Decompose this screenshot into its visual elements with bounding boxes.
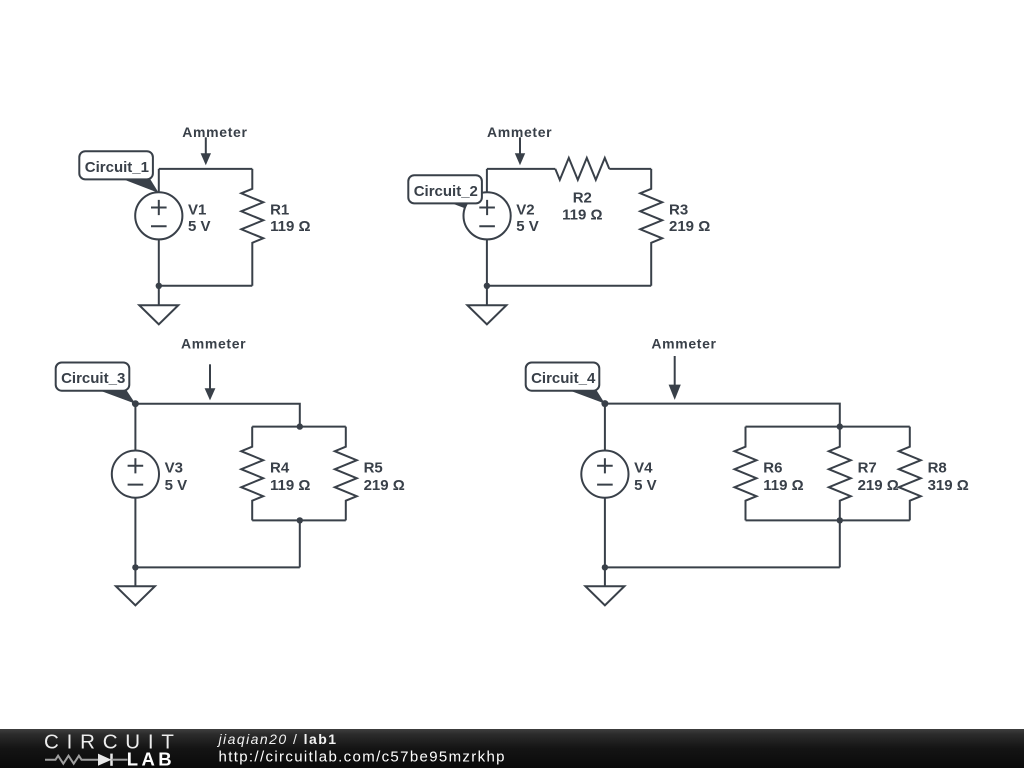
resistor R2 <box>555 158 609 180</box>
wire top rail circuit 2 right segment <box>609 168 651 170</box>
svg-text:Circuit_1: Circuit_1 <box>85 159 149 176</box>
wire top rail circuit 2 left segment <box>487 168 555 170</box>
node label Circuit_4 <box>526 363 600 391</box>
node label Circuit_2 <box>408 175 482 203</box>
wire parallel bottom rail circuit 4 <box>746 519 910 521</box>
ground circuit 3 <box>116 567 155 605</box>
node label Circuit_3 <box>56 363 130 391</box>
svg-text:R6: R6 <box>763 459 782 476</box>
resistor R6 <box>735 427 757 521</box>
V1 value label <box>188 202 211 236</box>
wire V2 top lead <box>486 169 488 192</box>
svg-text:V2: V2 <box>516 202 534 219</box>
wire bottom rail circuit 2 <box>487 285 651 287</box>
svg-text:119 Ω: 119 Ω <box>270 477 310 494</box>
wire junction to bottom circuit 4 <box>839 520 841 567</box>
ground circuit 2 <box>467 286 506 325</box>
logo resistor symbol <box>45 756 98 764</box>
wire V2 bottom lead <box>486 239 488 285</box>
svg-text:Ammeter: Ammeter <box>651 335 716 351</box>
svg-text:jiaqian20 / lab1: jiaqian20 / lab1 <box>217 731 338 747</box>
resistor R1 <box>241 169 263 286</box>
Ammeter arrow circuit 1 <box>201 137 211 165</box>
svg-text:http://circuitlab.com/c57be95m: http://circuitlab.com/c57be95mzrkhp <box>219 749 506 766</box>
wire bottom rail circuit 1 <box>159 285 253 287</box>
junction circuit 3 bottom rail <box>297 517 303 523</box>
svg-text:R1: R1 <box>270 202 289 219</box>
junction circuit 4 top rail <box>837 423 843 429</box>
svg-text:5 V: 5 V <box>516 218 539 235</box>
svg-text:Circuit_3: Circuit_3 <box>61 370 125 387</box>
R6 value label <box>763 459 803 494</box>
svg-text:219 Ω: 219 Ω <box>364 477 405 494</box>
resistor R4 <box>241 427 263 521</box>
svg-text:Circuit_4: Circuit_4 <box>531 370 596 387</box>
junction circuit 3 top rail <box>297 423 303 429</box>
wire parallel bottom rail circuit 3 <box>252 519 346 521</box>
svg-text:5 V: 5 V <box>188 218 211 235</box>
svg-text:119 Ω: 119 Ω <box>562 206 602 223</box>
wire V3 bottom lead <box>134 498 136 568</box>
wire top rail circuit 3 <box>135 404 299 427</box>
svg-text:R7: R7 <box>858 459 877 476</box>
svg-text:V1: V1 <box>188 202 206 219</box>
svg-text:219 Ω: 219 Ω <box>669 218 710 235</box>
node flag pointer Circuit_4 <box>568 390 605 404</box>
wire bottom rail circuit 4 <box>605 566 840 568</box>
junction circuit 2 ground node <box>484 283 490 289</box>
V2 value label <box>516 202 539 236</box>
svg-text:R5: R5 <box>364 459 383 476</box>
wire V4 bottom lead <box>604 498 606 568</box>
R5 value label <box>364 459 405 494</box>
svg-text:319 Ω: 319 Ω <box>928 477 969 494</box>
svg-text:5 V: 5 V <box>634 477 657 494</box>
svg-text:LAB: LAB <box>127 749 175 768</box>
svg-text:5 V: 5 V <box>165 477 188 494</box>
R3 value label <box>669 202 710 236</box>
svg-text:Circuit_2: Circuit_2 <box>414 183 478 200</box>
resistor R5 <box>335 427 357 521</box>
voltage source V4 <box>581 451 628 498</box>
ground circuit 4 <box>585 567 624 605</box>
wire V1 bottom lead <box>158 239 160 285</box>
svg-text:R4: R4 <box>270 459 290 476</box>
wire parallel top rail circuit 4 <box>746 426 910 428</box>
V3 value label <box>165 459 188 494</box>
junction circuit 1 ground node <box>156 283 162 289</box>
resistor R3 <box>640 169 662 286</box>
R1 value label <box>270 202 310 236</box>
Ammeter arrow circuit 2 <box>515 137 525 165</box>
Ammeter arrow circuit 3 <box>205 364 216 400</box>
wire top rail circuit 4 <box>605 404 840 427</box>
node flag pointer Circuit_2 <box>449 202 488 217</box>
wire top rail circuit 1 <box>159 168 253 170</box>
node dot Circuit_4 anchor <box>601 400 608 407</box>
svg-text:R8: R8 <box>928 459 947 476</box>
voltage source V3 <box>112 451 159 498</box>
svg-text:119 Ω: 119 Ω <box>763 477 803 494</box>
svg-text:Ammeter: Ammeter <box>182 124 247 140</box>
wire V3 top lead <box>134 404 136 451</box>
node dot Circuit_3 anchor <box>132 400 139 407</box>
R2 value label <box>562 189 602 223</box>
wire parallel top rail circuit 3 <box>252 426 346 428</box>
wire bottom rail circuit 3 <box>135 566 299 568</box>
svg-text:Ammeter: Ammeter <box>181 335 246 351</box>
svg-text:R3: R3 <box>669 202 688 219</box>
svg-text:119 Ω: 119 Ω <box>270 218 310 235</box>
wire V4 top lead <box>604 404 606 451</box>
junction circuit 4 bottom rail <box>837 517 843 523</box>
voltage source V2 <box>464 192 511 239</box>
resistor R7 <box>829 427 851 521</box>
junction circuit 4 ground node <box>602 564 608 570</box>
svg-text:R2: R2 <box>573 189 592 206</box>
wire V1 top lead <box>158 169 160 192</box>
logo diode symbol <box>98 754 128 766</box>
svg-text:V4: V4 <box>634 459 653 476</box>
R8 value label <box>928 459 969 494</box>
junction circuit 3 ground node <box>132 564 138 570</box>
Ammeter arrow circuit 4 <box>669 356 681 400</box>
V4 value label <box>634 459 657 494</box>
node label Circuit_1 <box>79 151 153 179</box>
voltage source V1 <box>135 192 182 239</box>
resistor R8 <box>899 427 921 521</box>
node flag pointer Circuit_3 <box>98 390 135 404</box>
svg-text:V3: V3 <box>165 459 183 476</box>
R4 value label <box>270 459 310 494</box>
svg-text:219 Ω: 219 Ω <box>858 477 899 494</box>
wire junction to bottom circuit 3 <box>299 520 301 567</box>
footer bar <box>0 729 1024 768</box>
R7 value label <box>858 459 899 494</box>
node flag pointer Circuit_1 <box>122 179 159 193</box>
ground circuit 1 <box>139 286 178 325</box>
